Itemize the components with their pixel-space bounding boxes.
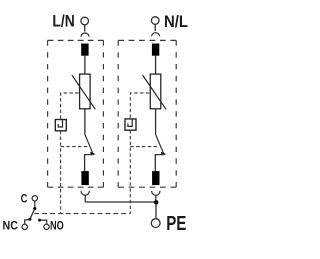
- dashed linkage: varistor to indicator (right): [130, 93, 149, 119]
- contact pivot dot: [33, 207, 36, 210]
- plug contact arc right (top): [152, 33, 160, 37]
- plug contact arc left (top): [81, 33, 89, 37]
- svg-text:NO: NO: [50, 219, 64, 233]
- terminal circle N/L: [151, 17, 159, 25]
- wire: varistor to switch (right): [155, 109, 157, 135]
- thermal fuse F1 (top, left branch): [81, 44, 88, 56]
- disconnect switch arrowhead (left): [90, 152, 96, 156]
- wire: varistor to switch (left): [84, 109, 86, 135]
- changeover blade: [30, 209, 35, 220]
- svg-text:NC: NC: [3, 218, 19, 232]
- svg-text:L/N: L/N: [52, 12, 74, 31]
- varistor RV2 body: [150, 74, 161, 109]
- wire: PE bus horizontal: [85, 201, 156, 203]
- dashed enclosure box right module: [118, 40, 176, 187]
- varistor RV1 diagonal: [72, 75, 95, 109]
- lower connection block (left, black): [81, 171, 88, 185]
- wire: C terminal stem: [34, 201, 36, 208]
- wire: switch to lower fuse (left): [84, 155, 86, 172]
- svg-text:PE: PE: [166, 213, 186, 235]
- wire: right cup stem to PE node: [155, 195, 157, 202]
- wire: left cup stem to PE bus: [84, 195, 86, 202]
- disconnect switch lower bar (right): [155, 154, 165, 156]
- wire: fuse to varistor (left): [84, 56, 86, 74]
- thermal disconnect indicator square (left): [55, 120, 66, 131]
- dashed linkage: to switch blade (right): [130, 146, 159, 148]
- NO contact hook: [40, 220, 47, 224]
- dashed linkage: to switch blade (left): [61, 146, 89, 148]
- wire: node to PE terminal: [155, 202, 157, 218]
- dashed linkage: varistor to indicator (left): [61, 93, 79, 120]
- disconnect switch blade (right): [156, 135, 164, 155]
- disconnect switch blade (left): [85, 135, 93, 155]
- svg-text:N/L: N/L: [164, 12, 188, 31]
- NO terminal circle: [44, 224, 49, 229]
- dashed enclosure box left module: [48, 40, 104, 187]
- dashed linkage: indicator down to bus (left): [60, 131, 62, 214]
- varistor RV1 body: [80, 74, 91, 109]
- NO contact dot: [38, 219, 41, 222]
- disconnect switch lower bar (left): [84, 154, 94, 156]
- PE terminal circle: [151, 219, 160, 228]
- plug contact cup left (bottom): [81, 191, 89, 195]
- svg-text:C: C: [21, 192, 28, 206]
- plug contact cup right (bottom): [152, 191, 160, 195]
- wire: switch to lower fuse (right): [154, 155, 156, 172]
- disconnect switch arrowhead (right): [161, 152, 167, 156]
- wire: fuse to varistor (right): [155, 56, 157, 74]
- NC terminal circle: [22, 224, 27, 229]
- PE junction node: [154, 200, 159, 205]
- thermal disconnect indicator square (right): [125, 119, 136, 130]
- NC contact hook: [25, 220, 30, 224]
- remote contact terminal C: [32, 196, 37, 201]
- dashed linkage: indicator down to bus (right): [129, 130, 131, 213]
- wire: N/L terminal stem: [154, 24, 156, 31]
- NC contact dot: [28, 218, 31, 221]
- thermal fuse F2 (top, right branch): [152, 44, 159, 56]
- dashed mechanical bus to remote contact: [34, 213, 130, 215]
- varistor RV2 diagonal: [143, 75, 166, 109]
- wire: L/N terminal stem: [84, 25, 86, 32]
- terminal circle L/N: [81, 17, 89, 25]
- lower connection block (right, black): [152, 171, 159, 185]
